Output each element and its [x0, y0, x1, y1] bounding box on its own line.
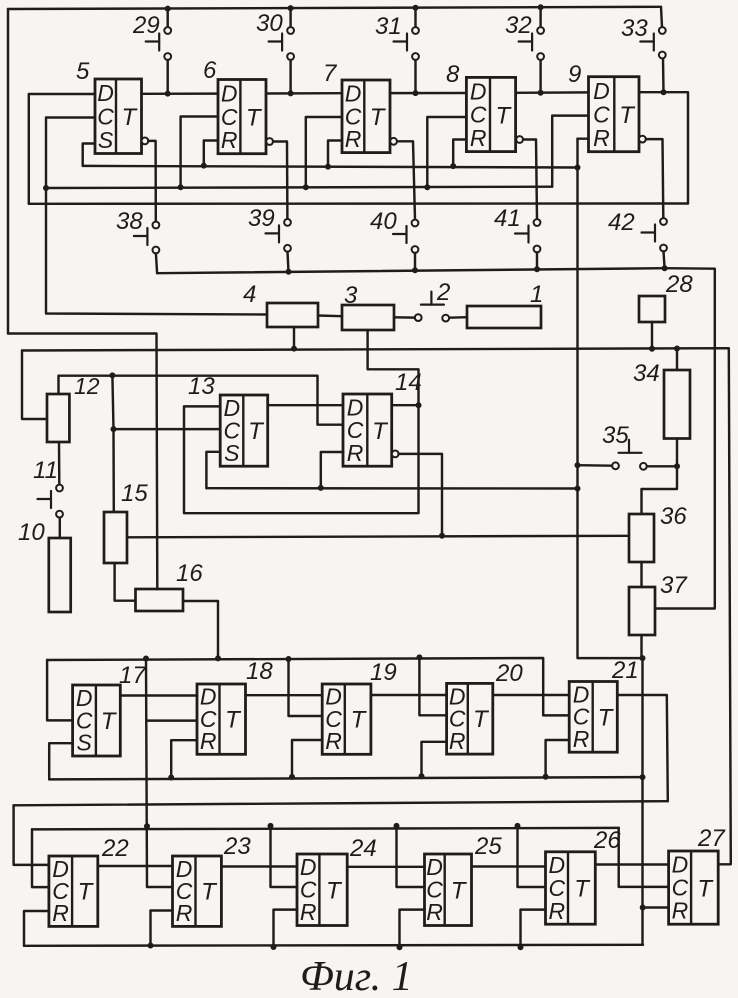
switch 11 — [38, 485, 63, 518]
wire 16 output — [183, 601, 218, 658]
svg-text:S: S — [98, 127, 114, 153]
wire Q13 to D14 — [268, 404, 343, 406]
wire rail to switch 31 — [414, 7, 416, 27]
svg-text:11: 11 — [33, 457, 58, 484]
wire 12 left input — [22, 351, 47, 420]
wire 4 to 3 — [318, 314, 342, 317]
svg-text:T: T — [473, 706, 490, 733]
junction Q8-32 — [538, 90, 544, 96]
wire C19 riser — [289, 659, 323, 716]
wire R7 under-path — [328, 141, 342, 167]
svg-text:T: T — [574, 876, 591, 903]
svg-text:R: R — [347, 440, 364, 466]
wire Q24 to D25 — [347, 866, 424, 868]
flip-flop U6 — [218, 80, 266, 154]
svg-text:C: C — [221, 104, 238, 130]
svg-text:17: 17 — [119, 662, 147, 689]
wire R19 under-path — [292, 740, 322, 777]
junction R14 tap — [318, 485, 324, 491]
wire R27 stub — [643, 906, 669, 908]
wire switch 2 to 1 — [449, 316, 467, 319]
wire C18 branch — [146, 719, 197, 721]
junction frame-16 — [215, 655, 221, 661]
flip-flop U5 — [95, 79, 142, 154]
wire C26 riser — [518, 826, 546, 887]
wire C9 riser — [552, 116, 588, 187]
flip-flop U14 — [343, 394, 392, 466]
wire 15 top riser — [112, 429, 115, 512]
junction H2-C7 — [303, 184, 309, 190]
svg-text:4: 4 — [243, 281, 256, 308]
wire switch 42 drop — [664, 251, 665, 268]
wire left outer frame — [7, 9, 9, 334]
junction H1-reset — [575, 165, 581, 171]
svg-text:R: R — [300, 899, 317, 925]
junction frame-C20 — [416, 654, 422, 660]
junction sw42 tap — [662, 265, 668, 271]
wire 34 bottom lead — [676, 439, 678, 467]
wire R8 under-path — [453, 140, 466, 167]
svg-text:34: 34 — [633, 360, 660, 387]
svg-text:21: 21 — [611, 657, 639, 684]
wire S17 under-path — [49, 743, 72, 779]
wire C20 riser — [419, 657, 446, 715]
resistor 3 — [342, 305, 394, 330]
element 12 — [47, 394, 69, 442]
wire main feedback line — [22, 348, 731, 864]
svg-text:C: C — [97, 103, 114, 129]
svg-text:13: 13 — [188, 373, 215, 400]
wire Q6 to D7 — [266, 92, 342, 95]
wire switch 33 to Q9 line — [662, 58, 665, 92]
svg-text:35: 35 — [602, 422, 629, 449]
svg-text:22: 22 — [101, 835, 129, 862]
wire C8 riser — [427, 117, 466, 187]
wire row3 reset bus — [24, 945, 643, 946]
inverted output U7 out — [390, 138, 397, 145]
switch 40 — [393, 220, 418, 253]
wire switch 38 drop — [156, 253, 157, 273]
wire U6 output drop to switch 39 — [273, 142, 287, 220]
wire switch 39 drop — [288, 252, 289, 272]
wire 35/34 to 36 route — [642, 466, 678, 514]
wire switch 35 to 34 — [647, 465, 677, 467]
switch 2 — [415, 292, 449, 322]
svg-text:Фиг. 1: Фиг. 1 — [300, 954, 413, 998]
wire U9 output to switch 42 — [646, 139, 664, 218]
inverted output U5 out — [142, 138, 149, 145]
junction rail-29 — [165, 6, 171, 12]
svg-text:R: R — [470, 125, 487, 151]
wire Q14 to node — [392, 404, 419, 406]
svg-text:16: 16 — [176, 560, 203, 587]
svg-text:T: T — [351, 707, 368, 734]
inverted output U6 out — [266, 138, 273, 145]
wire switch 30 to Q6 line — [289, 60, 291, 93]
svg-text:T: T — [697, 875, 714, 902]
inverted output U9 out — [639, 136, 646, 143]
junction bus3-R26 — [518, 944, 524, 950]
junction bus2-reset — [640, 774, 646, 780]
junction H1-R7 — [325, 164, 331, 170]
svg-text:T: T — [225, 707, 242, 734]
svg-text:R: R — [548, 898, 565, 924]
flip-flop U7 — [342, 80, 390, 153]
svg-text:7: 7 — [323, 60, 338, 87]
wire switch 32 to Q8 line — [539, 60, 541, 93]
element 15 — [104, 512, 127, 563]
junction bus2-R19 — [289, 774, 295, 780]
svg-text:T: T — [201, 879, 218, 906]
wire R9 stub to reset line — [578, 137, 589, 139]
wire H2 clock bus — [46, 187, 552, 188]
wire R25 under-path — [400, 910, 425, 948]
svg-text:R: R — [345, 126, 362, 152]
svg-text:R: R — [176, 900, 193, 926]
junction sw40 tap — [412, 267, 418, 273]
svg-text:D: D — [221, 80, 238, 106]
wire C7 riser — [306, 117, 342, 187]
svg-text:D: D — [672, 852, 689, 878]
wire R18 under-path — [171, 740, 197, 777]
wire Q26 to D27 — [595, 863, 668, 865]
svg-text:T: T — [495, 102, 512, 129]
wire U7 output drop to switch 40 — [397, 141, 415, 219]
svg-text:25: 25 — [474, 833, 502, 860]
svg-text:39: 39 — [248, 205, 275, 232]
junction H1-R6 — [201, 163, 207, 169]
wire clock line 12-13-14 — [59, 376, 344, 425]
flip-flop U9 — [589, 77, 640, 152]
junction rail-30 — [288, 5, 294, 11]
junction R27 node — [640, 905, 646, 911]
junction clk-C13 — [109, 372, 115, 378]
wire reset net vertical — [578, 139, 643, 945]
svg-text:T: T — [121, 104, 138, 131]
wire 12 bottom lead — [58, 442, 61, 485]
svg-text:18: 18 — [246, 658, 273, 685]
inverted output U14 out — [392, 451, 399, 458]
flip-flop U21 — [569, 681, 617, 752]
svg-text:T: T — [619, 102, 636, 129]
flip-flop U17 — [73, 685, 121, 756]
junction bus2-R18 — [168, 775, 174, 781]
wire switch collect line — [157, 268, 715, 608]
svg-text:C: C — [470, 102, 487, 128]
wire 34 top lead — [676, 349, 678, 371]
resistor 4 — [267, 303, 318, 327]
svg-text:D: D — [470, 78, 487, 104]
resistor 34 — [664, 370, 690, 439]
svg-text:14: 14 — [395, 369, 422, 396]
wire R26 under-path — [521, 910, 546, 948]
svg-text:23: 23 — [223, 833, 251, 860]
switch 35 — [612, 440, 647, 470]
wire top rail — [8, 7, 661, 9]
svg-text:C: C — [593, 101, 610, 127]
junction clkB-C25 — [394, 823, 400, 829]
svg-text:T: T — [372, 418, 389, 445]
wire row2 reset bus — [49, 777, 642, 779]
svg-text:T: T — [248, 418, 265, 445]
wire switch 40 drop — [414, 253, 416, 270]
wire 37 bottom lead — [640, 635, 642, 658]
switch 41 — [515, 219, 540, 252]
wire 3 to switch 2 — [394, 316, 415, 319]
wire 15 bottom to 16 — [115, 563, 136, 601]
wire clock chain C18-C23 — [146, 659, 173, 888]
switch 38 — [134, 222, 159, 254]
svg-text:40: 40 — [370, 208, 397, 235]
switch 42 — [642, 218, 667, 251]
svg-text:T: T — [101, 708, 118, 735]
wire C13 input — [114, 428, 221, 430]
svg-text:D: D — [97, 80, 114, 106]
junction sw35 right node — [674, 463, 680, 469]
junction reset link end — [575, 486, 581, 492]
wire Q20 to D21 — [493, 694, 569, 696]
wire 28 lead — [651, 322, 653, 349]
wire Q8 to D9 — [516, 91, 589, 94]
junction H2-C8 — [424, 184, 430, 190]
inverted output U8 out — [516, 136, 523, 143]
wire 36 to 37 — [640, 562, 642, 587]
svg-text:R: R — [573, 726, 590, 752]
junction clkB-C24 — [268, 823, 274, 829]
junction bus3-R23 — [148, 943, 154, 949]
flip-flop U27 — [669, 851, 719, 924]
svg-text:R: R — [52, 900, 69, 926]
svg-text:19: 19 — [370, 659, 397, 686]
wire C24 riser — [271, 826, 298, 887]
svg-text:T: T — [246, 105, 263, 132]
svg-text:32: 32 — [505, 12, 532, 39]
wire U5 output drop to switch 38 — [148, 141, 156, 222]
svg-text:R: R — [449, 728, 466, 754]
flip-flop U26 — [546, 852, 596, 924]
svg-text:33: 33 — [621, 15, 648, 42]
svg-text:27: 27 — [697, 825, 726, 852]
wire R21 under-path — [546, 740, 570, 777]
svg-text:R: R — [672, 898, 689, 924]
wire upper feedback jog — [8, 334, 157, 590]
svg-text:30: 30 — [256, 10, 283, 37]
junction sw41 tap — [534, 266, 540, 272]
junction bus3-R24 — [271, 944, 277, 950]
svg-text:37: 37 — [660, 572, 688, 599]
junction bus2-R21 — [543, 774, 549, 780]
junction 37 reset node — [640, 655, 646, 661]
wire Q23 to D24 — [221, 865, 297, 867]
wire Q17 to D18 — [120, 694, 197, 696]
wire C6 riser — [181, 117, 218, 188]
wire C27 route — [619, 828, 669, 887]
wire R20 under-path — [422, 742, 447, 777]
svg-text:15: 15 — [121, 480, 148, 507]
wire R22 under-path — [24, 911, 49, 946]
resistor 1 — [467, 306, 541, 328]
junction H2-C5 — [43, 185, 49, 191]
wire Q22 to D23 — [98, 865, 173, 867]
flip-flop U20 — [447, 683, 493, 754]
junction rail-32 — [538, 4, 544, 10]
wire C5 feed / clock riser — [46, 118, 267, 315]
svg-text:T: T — [370, 104, 387, 131]
switch 30 — [269, 27, 294, 60]
junction rail-31 — [413, 5, 419, 11]
wire row3 clock line — [32, 828, 619, 830]
svg-text:3: 3 — [344, 282, 358, 309]
junction H2-C6 — [178, 184, 184, 190]
wire D5 feed from H3 — [29, 94, 95, 204]
svg-text:D: D — [593, 78, 610, 104]
wire rail to switch 30 — [289, 8, 291, 27]
junction sw35 left tap — [575, 462, 581, 468]
svg-text:S: S — [77, 730, 93, 756]
flip-flop U24 — [297, 854, 347, 926]
junction bus3-R25 — [397, 944, 403, 950]
junction fb-28 — [649, 346, 655, 352]
junction fb-34 — [674, 346, 680, 352]
svg-text:T: T — [326, 877, 343, 904]
junction sw39 tap — [286, 269, 292, 275]
element 37 — [629, 587, 655, 635]
svg-text:9: 9 — [568, 61, 581, 88]
junction frame-C19 — [286, 656, 292, 662]
flip-flop U8 — [466, 77, 515, 151]
element 10 — [49, 538, 71, 612]
svg-text:41: 41 — [494, 205, 521, 232]
wire rail corner to switch 33 — [661, 7, 662, 27]
svg-text:20: 20 — [495, 660, 523, 687]
svg-text:R: R — [325, 728, 342, 754]
wire D22 drop — [14, 805, 49, 865]
junction fb-4 — [291, 346, 297, 352]
wire R23 under-path — [151, 911, 173, 946]
svg-text:26: 26 — [593, 827, 621, 854]
switch 39 — [266, 219, 291, 252]
svg-text:1: 1 — [530, 281, 543, 308]
wire S5 under-path — [83, 144, 95, 166]
svg-text:S: S — [224, 440, 240, 466]
svg-text:T: T — [451, 877, 468, 904]
wire Q7 to D8 — [390, 92, 466, 95]
wire C22 drop — [32, 829, 49, 887]
element 28 — [639, 296, 665, 322]
wire U8 output drop to switch 41 — [523, 140, 537, 220]
switch 32 — [519, 27, 544, 60]
svg-text:36: 36 — [660, 503, 687, 530]
wire 12 top riser — [57, 376, 59, 394]
svg-text:T: T — [78, 879, 95, 906]
junction Q7-31 — [413, 90, 419, 96]
wire switch 11 to 10 — [59, 518, 61, 538]
element 16 — [136, 589, 184, 611]
wire C13 riser — [112, 375, 113, 429]
wire rail to switch 32 — [539, 7, 541, 27]
junction clkB-C26 — [515, 823, 521, 829]
switch 33 — [640, 27, 665, 58]
junction C13-15 — [111, 426, 117, 432]
wire row2 frame to C17 — [47, 660, 73, 720]
wire R6 under-path — [204, 141, 218, 166]
wire rail to switch 29 — [166, 8, 168, 27]
wire 3 bottom to D13 route — [184, 330, 419, 513]
flip-flop U19 — [322, 684, 371, 755]
svg-text:8: 8 — [446, 61, 460, 88]
junction Q14 node — [416, 402, 422, 408]
svg-text:6: 6 — [203, 57, 217, 84]
wire reset to switch 35 — [578, 464, 613, 467]
switch 31 — [394, 27, 419, 60]
wire Q9 feedback — [639, 92, 688, 203]
wire switch 41 drop — [536, 252, 538, 269]
svg-text:R: R — [593, 125, 610, 151]
wire H1 reset bus — [83, 166, 578, 168]
junction Q5-29 — [165, 91, 171, 97]
flip-flop U22 — [49, 856, 98, 927]
wire switch 31 to Q7 line — [414, 60, 416, 93]
svg-text:28: 28 — [665, 271, 693, 298]
element 36 — [629, 514, 654, 562]
svg-text:29: 29 — [132, 12, 160, 39]
wire Q21 to D22 line — [617, 695, 668, 801]
svg-text:31: 31 — [375, 13, 402, 40]
wire Q18 to D19 — [246, 694, 323, 696]
svg-text:42: 42 — [608, 209, 635, 236]
wire S13 under-path — [206, 452, 220, 488]
junction H1-R8 — [450, 163, 456, 169]
wire U14 output drop — [399, 454, 442, 536]
wire row2 clock frame — [47, 658, 569, 715]
flip-flop U23 — [173, 856, 222, 927]
flip-flop U18 — [197, 684, 246, 755]
svg-text:2: 2 — [436, 279, 450, 306]
svg-text:R: R — [200, 728, 217, 754]
svg-text:24: 24 — [349, 835, 377, 862]
wire Q19 to D20 — [371, 694, 447, 696]
svg-text:5: 5 — [76, 58, 90, 85]
flip-flop U25 — [425, 854, 472, 926]
wire Q5 to D6 — [142, 92, 219, 95]
svg-text:38: 38 — [116, 208, 143, 235]
wire 15/14 to 36 line — [127, 536, 629, 538]
junction clkB-chain — [144, 823, 150, 829]
wire D22 feed line — [14, 801, 668, 805]
wire R14 under-path — [321, 452, 344, 488]
junction bus2-R20 — [419, 773, 425, 779]
svg-text:T: T — [598, 704, 615, 731]
wire switch 29 to Q5 line — [166, 60, 168, 94]
wire Q25 to D26 — [472, 865, 546, 867]
switch 29 — [146, 27, 171, 60]
svg-text:R: R — [426, 899, 443, 925]
wire R24 under-path — [274, 910, 298, 947]
junction Q6-30 — [288, 90, 294, 96]
junction frame-C18 — [143, 656, 149, 662]
flip-flop U13 — [220, 395, 268, 466]
wire 4 bottom lead — [293, 327, 295, 349]
svg-text:10: 10 — [18, 519, 45, 546]
wire C25 riser — [397, 826, 425, 887]
wire 13-14 reset link — [206, 487, 577, 490]
wire H3 feedback bus — [29, 202, 688, 205]
svg-text:R: R — [221, 127, 238, 153]
junction 14out tap — [439, 533, 445, 539]
junction Q9-33 — [661, 89, 667, 95]
